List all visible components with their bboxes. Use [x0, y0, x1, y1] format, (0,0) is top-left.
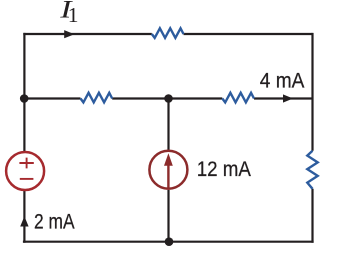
svg-text:1: 1: [68, 3, 79, 27]
svg-text:2 mA: 2 mA: [34, 211, 75, 234]
svg-text:4 mA: 4 mA: [260, 69, 305, 92]
svg-text:12 mA: 12 mA: [197, 158, 251, 181]
